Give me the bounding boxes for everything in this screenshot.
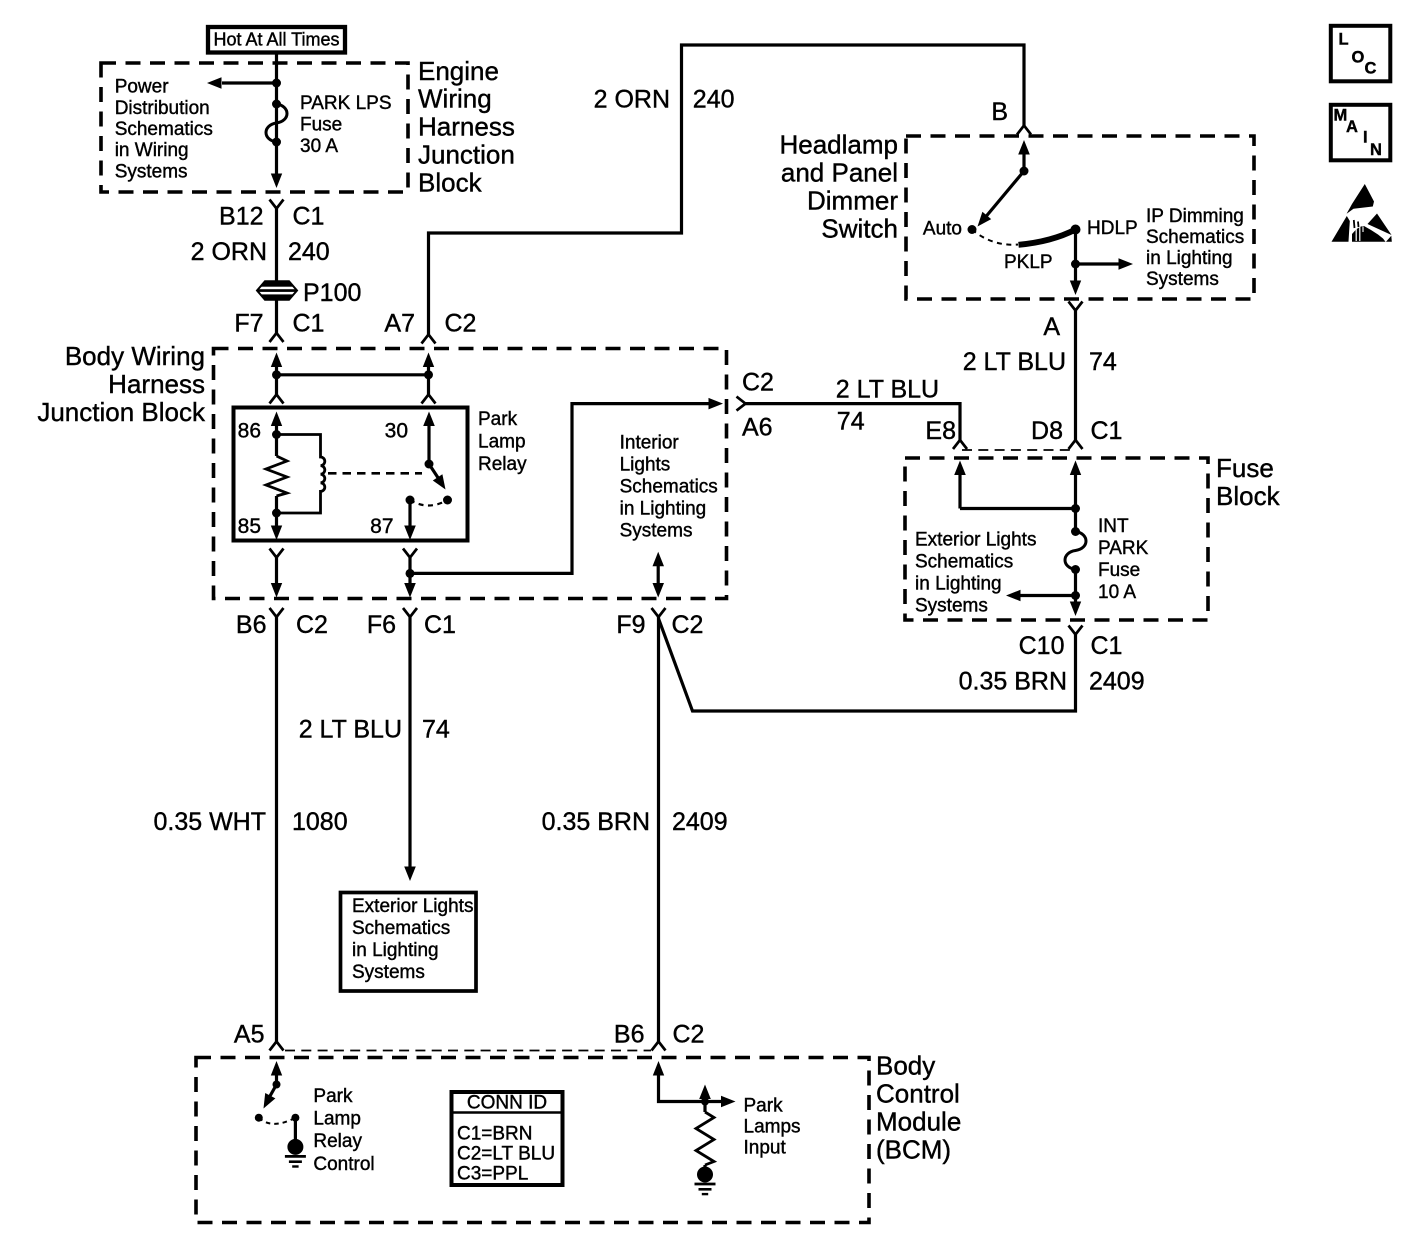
svg-text:Schematics: Schematics	[115, 119, 213, 140]
svg-text:Lamp: Lamp	[478, 432, 526, 453]
svg-text:C2: C2	[742, 369, 774, 397]
svg-text:C2=LT BLU: C2=LT BLU	[457, 1144, 555, 1165]
svg-text:E8: E8	[925, 417, 956, 445]
svg-text:I: I	[1363, 129, 1368, 147]
svg-text:Schematics: Schematics	[915, 551, 1013, 572]
svg-text:Engine: Engine	[418, 56, 499, 86]
svg-text:Exterior Lights: Exterior Lights	[352, 896, 473, 917]
svg-text:A7: A7	[384, 310, 415, 338]
svg-text:C1: C1	[1091, 632, 1123, 660]
svg-text:Harness: Harness	[108, 369, 205, 399]
svg-text:Wiring: Wiring	[418, 84, 492, 114]
svg-text:A5: A5	[234, 1021, 265, 1049]
svg-text:O: O	[1352, 49, 1365, 67]
svg-text:CONN ID: CONN ID	[467, 1093, 547, 1114]
svg-text:1080: 1080	[292, 808, 348, 836]
svg-text:C1: C1	[293, 202, 325, 230]
svg-text:Fuse: Fuse	[1098, 560, 1140, 581]
svg-text:Distribution: Distribution	[115, 98, 210, 119]
svg-text:B12: B12	[219, 202, 263, 230]
svg-text:PARK LPS: PARK LPS	[300, 93, 392, 114]
svg-text:N: N	[1370, 141, 1382, 159]
svg-text:0.35 BRN: 0.35 BRN	[959, 668, 1067, 696]
svg-text:in Lighting: in Lighting	[915, 573, 1002, 594]
svg-text:in Lighting: in Lighting	[1146, 248, 1233, 269]
svg-text:F9: F9	[616, 611, 645, 639]
svg-text:Dimmer: Dimmer	[807, 185, 898, 215]
svg-text:C2: C2	[296, 611, 328, 639]
svg-text:2 LT BLU: 2 LT BLU	[299, 716, 402, 744]
svg-text:Body Wiring: Body Wiring	[65, 341, 205, 371]
svg-text:Schematics: Schematics	[620, 477, 718, 498]
svg-text:D8: D8	[1031, 417, 1063, 445]
svg-text:74: 74	[422, 716, 450, 744]
svg-text:Lamps: Lamps	[744, 1117, 801, 1138]
svg-text:P100: P100	[303, 279, 361, 307]
svg-text:Control: Control	[876, 1079, 960, 1109]
svg-text:0.35 WHT: 0.35 WHT	[153, 808, 266, 836]
svg-text:Relay: Relay	[313, 1131, 362, 1152]
svg-text:B6: B6	[614, 1021, 645, 1049]
svg-text:in Wiring: in Wiring	[115, 140, 189, 161]
svg-text:74: 74	[1089, 348, 1117, 376]
svg-text:Fuse: Fuse	[300, 115, 342, 136]
svg-text:Park: Park	[478, 409, 518, 430]
svg-text:0.35 BRN: 0.35 BRN	[542, 808, 650, 836]
svg-text:F7: F7	[234, 310, 263, 338]
svg-text:87: 87	[370, 515, 393, 538]
svg-text:2409: 2409	[672, 808, 728, 836]
svg-text:Interior: Interior	[620, 433, 680, 454]
svg-text:HDLP: HDLP	[1087, 218, 1138, 239]
svg-text:Auto: Auto	[923, 219, 962, 240]
svg-text:INT: INT	[1098, 516, 1129, 537]
svg-text:C1: C1	[293, 310, 325, 338]
svg-text:PKLP: PKLP	[1004, 252, 1053, 273]
svg-text:Lights: Lights	[620, 455, 671, 476]
svg-text:Switch: Switch	[821, 213, 898, 243]
svg-text:Input: Input	[744, 1138, 787, 1159]
svg-text:Park: Park	[744, 1096, 784, 1117]
svg-text:Junction Block: Junction Block	[37, 397, 206, 427]
svg-text:Systems: Systems	[352, 962, 425, 983]
svg-text:B: B	[991, 98, 1008, 126]
svg-text:Schematics: Schematics	[352, 918, 450, 939]
svg-text:2 LT BLU: 2 LT BLU	[836, 376, 939, 404]
svg-text:L: L	[1339, 31, 1349, 49]
svg-text:Control: Control	[313, 1154, 374, 1175]
svg-text:B6: B6	[236, 611, 267, 639]
svg-text:2 ORN: 2 ORN	[594, 86, 670, 114]
svg-text:IP Dimming: IP Dimming	[1146, 206, 1244, 227]
svg-text:74: 74	[837, 408, 865, 436]
svg-text:C2: C2	[672, 611, 704, 639]
svg-text:in Lighting: in Lighting	[620, 499, 707, 520]
svg-text:C1=BRN: C1=BRN	[457, 1123, 533, 1144]
svg-text:2 ORN: 2 ORN	[191, 238, 267, 266]
svg-text:F6: F6	[367, 611, 396, 639]
svg-text:A: A	[1043, 313, 1060, 341]
svg-text:A6: A6	[742, 413, 773, 441]
svg-text:Fuse: Fuse	[1216, 453, 1274, 483]
svg-text:C1: C1	[424, 611, 456, 639]
svg-text:Junction: Junction	[418, 140, 515, 170]
svg-text:Systems: Systems	[620, 521, 693, 542]
svg-text:Exterior Lights: Exterior Lights	[915, 529, 1036, 550]
svg-text:in Lighting: in Lighting	[352, 940, 439, 961]
svg-text:30: 30	[385, 420, 408, 443]
svg-text:and Panel: and Panel	[781, 158, 898, 188]
svg-text:C2: C2	[445, 310, 477, 338]
svg-text:Systems: Systems	[915, 595, 988, 616]
svg-text:2409: 2409	[1089, 668, 1145, 696]
svg-text:Headlamp: Headlamp	[779, 130, 898, 160]
svg-text:Lamp: Lamp	[313, 1109, 361, 1130]
svg-text:2 LT BLU: 2 LT BLU	[963, 348, 1066, 376]
svg-text:Systems: Systems	[115, 161, 188, 182]
svg-text:Park: Park	[313, 1086, 353, 1107]
svg-text:Power: Power	[115, 77, 170, 98]
svg-text:85: 85	[238, 515, 261, 538]
svg-text:30 A: 30 A	[300, 136, 338, 157]
svg-text:240: 240	[693, 86, 735, 114]
svg-text:Module: Module	[876, 1107, 961, 1137]
svg-text:Systems: Systems	[1146, 269, 1219, 290]
svg-text:Hot At All Times: Hot At All Times	[213, 30, 339, 50]
svg-text:Block: Block	[1216, 481, 1281, 511]
svg-text:Harness: Harness	[418, 112, 515, 142]
svg-text:PARK: PARK	[1098, 538, 1149, 559]
svg-text:Relay: Relay	[478, 454, 527, 475]
svg-text:C10: C10	[1019, 632, 1065, 660]
svg-text:A: A	[1346, 118, 1358, 136]
svg-text:C2: C2	[673, 1021, 705, 1049]
svg-text:240: 240	[288, 238, 330, 266]
svg-text:C: C	[1365, 60, 1377, 78]
svg-text:10 A: 10 A	[1098, 582, 1136, 603]
svg-text:Block: Block	[418, 167, 483, 197]
svg-text:C3=PPL: C3=PPL	[457, 1164, 528, 1185]
svg-text:C1: C1	[1091, 417, 1123, 445]
svg-text:(BCM): (BCM)	[876, 1134, 951, 1164]
svg-text:Body: Body	[876, 1051, 935, 1081]
svg-text:Schematics: Schematics	[1146, 227, 1244, 248]
svg-text:86: 86	[238, 420, 261, 443]
